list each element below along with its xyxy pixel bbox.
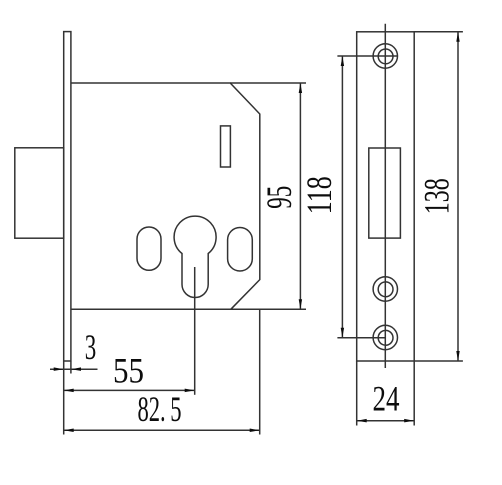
dim 82.5 right extension line [259, 309, 261, 434]
dim 118 line [341, 56, 343, 338]
arrow dim3 outside-right [71, 367, 81, 371]
dim 138 line [457, 32, 459, 361]
svg-text:95: 95 [259, 186, 299, 209]
latch slot small rectangle [221, 126, 231, 167]
middle screw hole outer [373, 277, 397, 301]
arrow dim95 up [299, 83, 302, 93]
arrow dim118 up [341, 56, 344, 66]
dim 82.5 line [64, 429, 260, 431]
dim 3/55/82.5 left extension line [63, 362, 65, 435]
dim 3 extension stub right [70, 362, 72, 374]
svg-text:118: 118 [299, 176, 339, 214]
strike plate outline [357, 32, 415, 361]
right oval hole [228, 228, 253, 272]
arrow dim55 right [185, 389, 195, 393]
dim 138 bottom extension [414, 360, 463, 362]
strike plate centre line [384, 24, 386, 368]
bottom screw hole inner [378, 330, 393, 345]
arrow dim82.5 left [64, 429, 74, 433]
svg-text:82. 5: 82. 5 [138, 389, 182, 429]
dim 118 bottom extension [337, 337, 385, 339]
dim 95 line [299, 83, 301, 309]
arrow dim118 down [341, 328, 344, 338]
arrow dim138 down [456, 351, 459, 361]
arrow dim55 left [64, 389, 74, 393]
dim 138 top extension [414, 31, 463, 33]
lock body outline with chamfered right corners [71, 83, 260, 309]
cylinder centre line / dim 55 extension [194, 267, 196, 395]
top screw hole outer [373, 44, 397, 68]
svg-text:3: 3 [85, 327, 97, 367]
dim 24 line [357, 420, 415, 422]
svg-text:55: 55 [113, 350, 144, 390]
dim 24 left extension [356, 361, 358, 426]
arrow dim82.5 right [250, 429, 260, 433]
dim 24 right extension [413, 361, 415, 426]
arrow dim95 down [299, 299, 302, 309]
dim 118 top extension [337, 55, 397, 57]
dim 55 line [64, 389, 195, 391]
strike plate rectangular cutout [369, 148, 401, 238]
dim 3 leader line [50, 368, 98, 370]
top screw hole inner [378, 49, 393, 64]
euro profile cylinder hole [174, 216, 216, 297]
svg-text:138: 138 [417, 178, 457, 214]
bottom screw hole outer [373, 325, 397, 349]
left oval hole [137, 227, 161, 270]
deadbolt [15, 148, 64, 238]
middle screw hole inner [378, 282, 393, 297]
svg-text:24: 24 [373, 378, 400, 418]
arrow dim24 left [357, 419, 367, 423]
body top edge extension line (dim 95) [230, 82, 306, 84]
arrow dim138 up [456, 32, 459, 42]
arrow dim3 outside-left [54, 367, 64, 371]
body bottom edge extension line (dim 95) [231, 308, 306, 310]
faceplate (lock side plate) [64, 32, 71, 361]
arrow dim24 right [404, 419, 414, 423]
